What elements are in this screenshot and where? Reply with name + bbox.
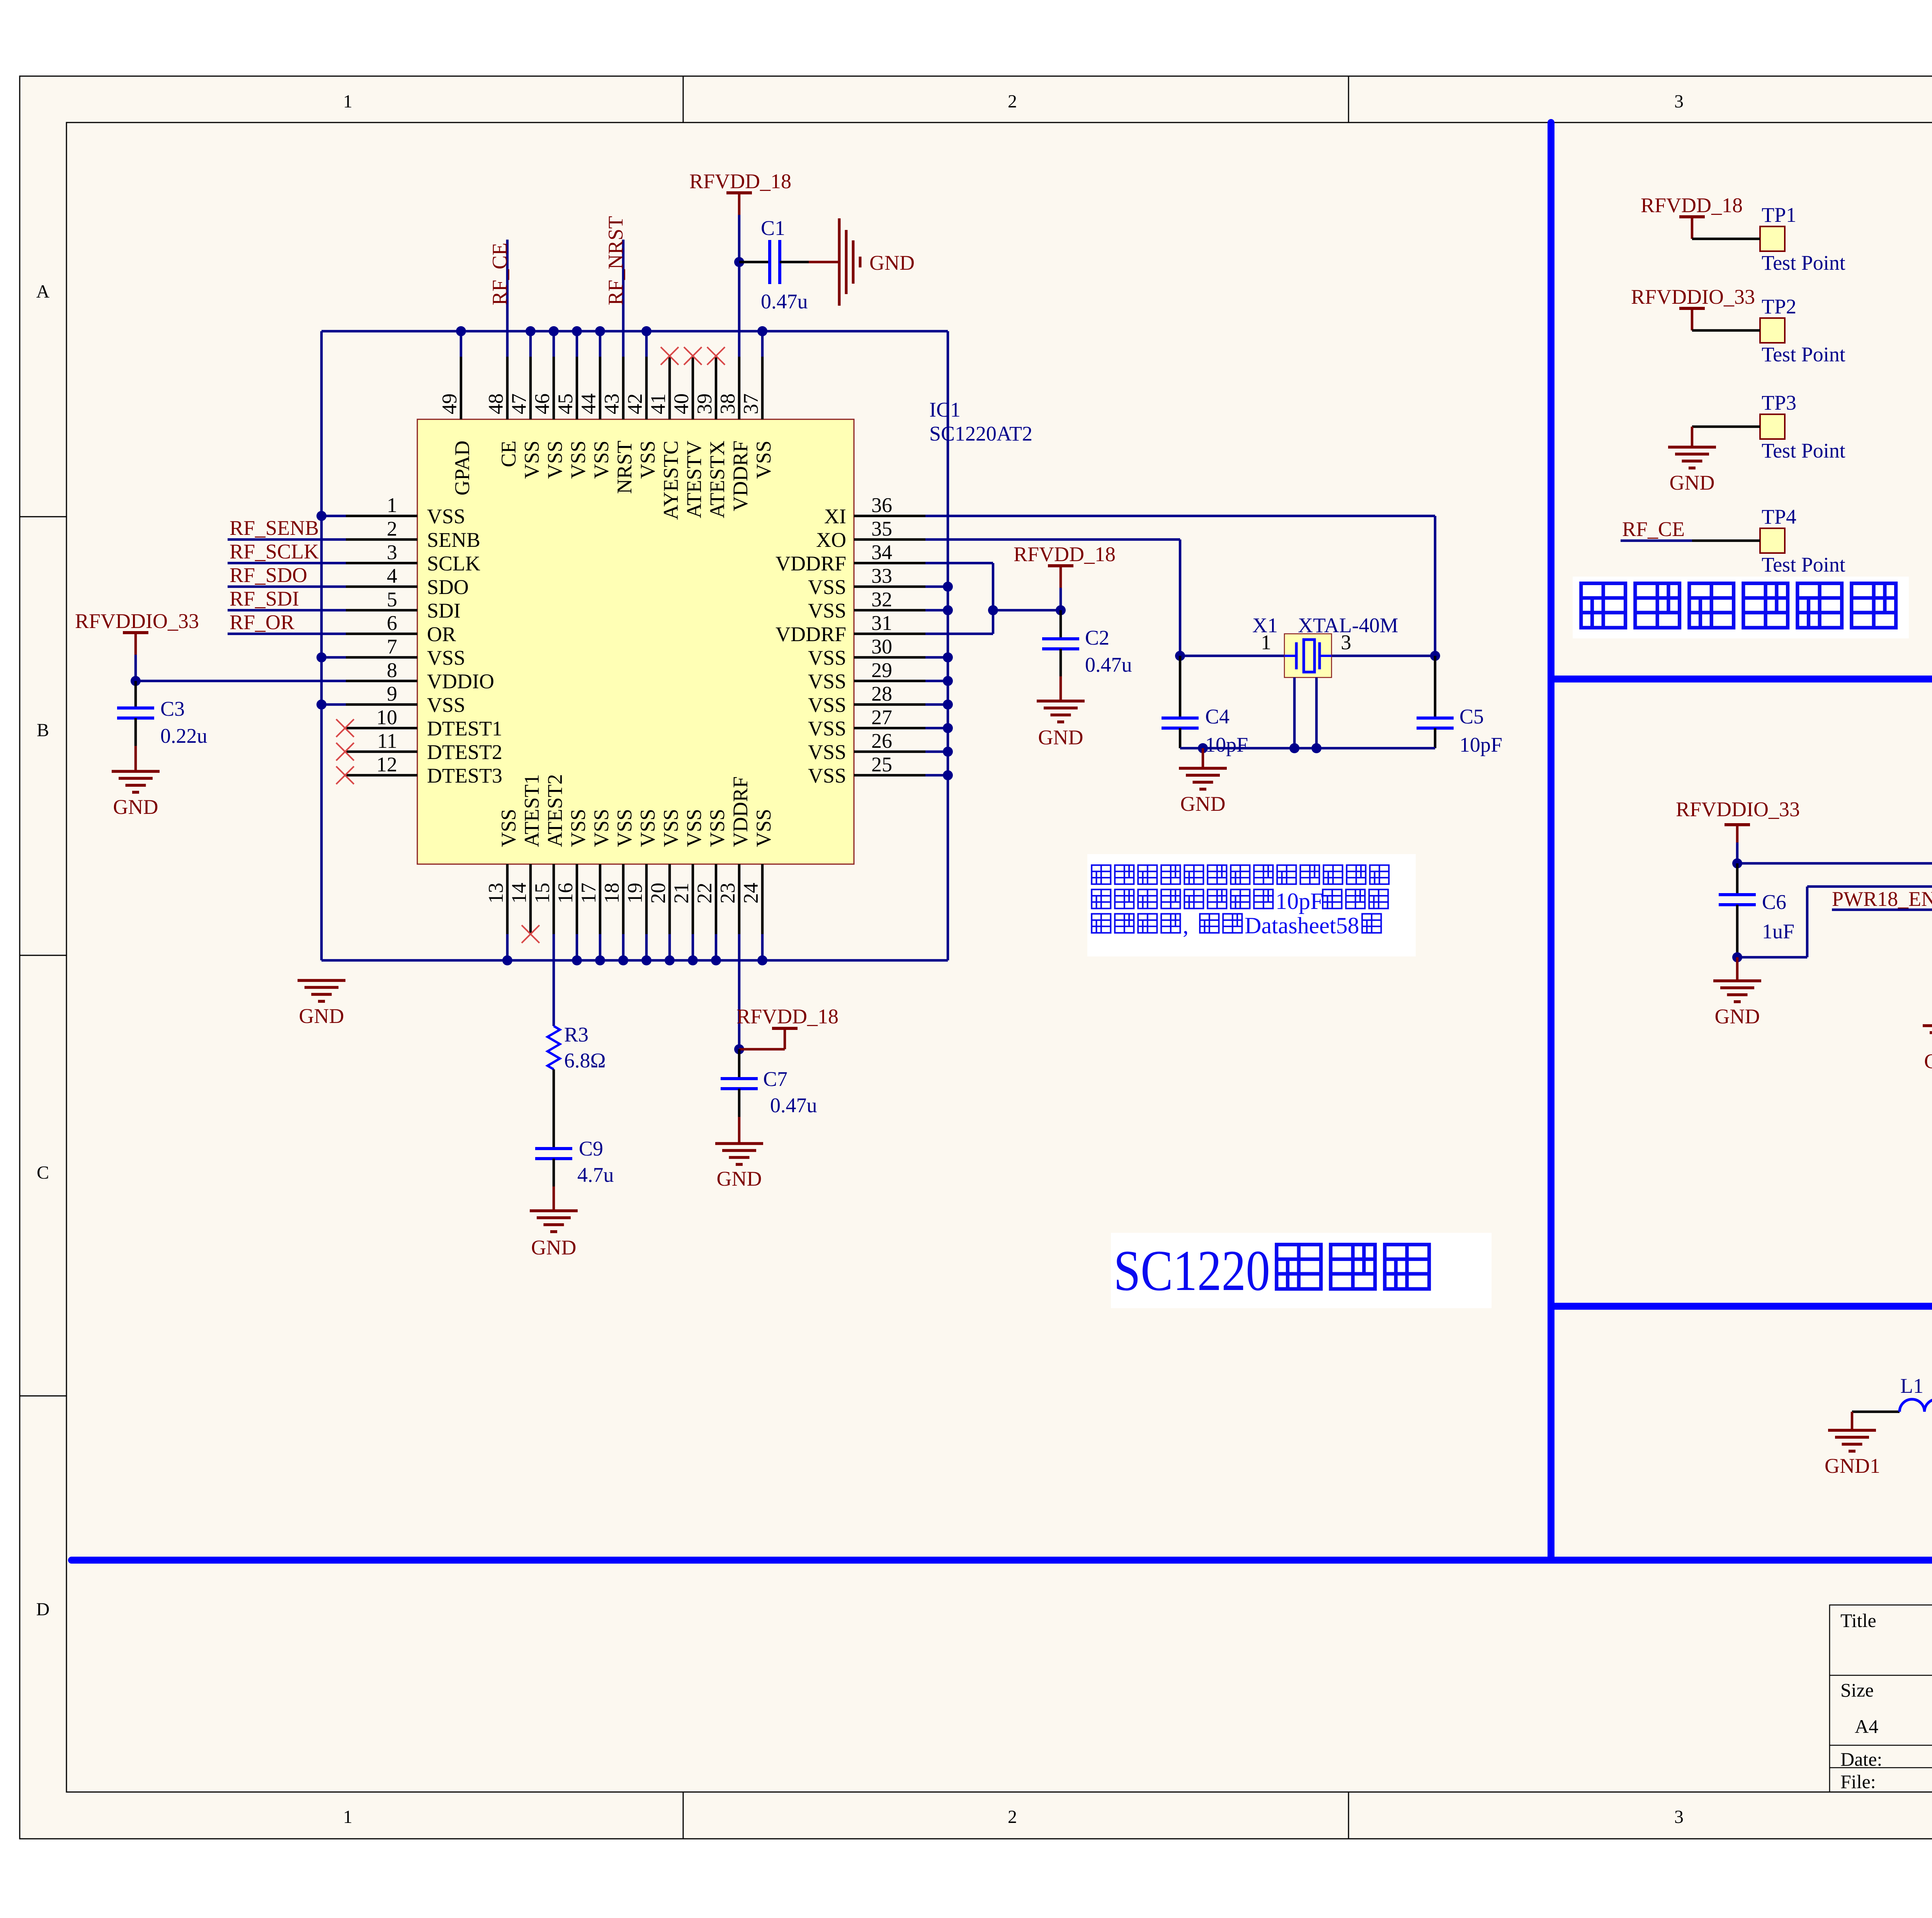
svg-text:Date:: Date: (1840, 1748, 1882, 1770)
svg-text:2: 2 (387, 517, 397, 540)
svg-text:GPAD: GPAD (451, 441, 474, 495)
svg-text:VSS: VSS (636, 441, 659, 479)
svg-text:Size: Size (1840, 1679, 1874, 1701)
svg-text:3: 3 (1674, 91, 1684, 112)
svg-text:6.8Ω: 6.8Ω (564, 1049, 606, 1072)
svg-text:Title: Title (1840, 1610, 1876, 1631)
svg-text:41: 41 (646, 393, 670, 414)
svg-text:VDDRF: VDDRF (776, 623, 846, 646)
svg-text:GND: GND (1924, 1050, 1932, 1073)
svg-text:RFVDD_18: RFVDD_18 (736, 1005, 838, 1028)
svg-text:GND: GND (1180, 792, 1226, 815)
svg-text:VSS: VSS (808, 740, 846, 764)
svg-text:27: 27 (871, 706, 892, 729)
svg-text:10pF: 10pF (1205, 733, 1248, 756)
svg-text:5: 5 (387, 588, 397, 611)
svg-text:RF_SCLK: RF_SCLK (230, 540, 319, 563)
svg-text:45: 45 (554, 393, 577, 414)
svg-text:C: C (37, 1162, 49, 1183)
svg-text:XO: XO (816, 528, 846, 551)
svg-text:,: , (1183, 913, 1189, 938)
svg-text:A4: A4 (1855, 1715, 1878, 1737)
svg-text:GND: GND (869, 251, 915, 274)
svg-text:R3: R3 (564, 1023, 588, 1046)
svg-text:RFVDD_18: RFVDD_18 (689, 170, 791, 193)
svg-text:6: 6 (387, 611, 397, 635)
svg-text:VSS: VSS (566, 441, 590, 479)
svg-text:VSS: VSS (808, 764, 846, 787)
svg-text:36: 36 (871, 494, 892, 517)
svg-text:1uF: 1uF (1762, 920, 1794, 943)
svg-text:38: 38 (716, 393, 739, 414)
svg-text:40: 40 (670, 393, 693, 414)
svg-text:46: 46 (531, 393, 554, 414)
svg-text:VSS: VSS (520, 441, 543, 479)
svg-text:ATEST2: ATEST2 (543, 774, 566, 847)
svg-text:23: 23 (716, 883, 739, 904)
svg-text:RF_SDO: RF_SDO (230, 563, 307, 587)
svg-text:1: 1 (1261, 631, 1271, 654)
svg-text:21: 21 (670, 883, 693, 904)
svg-text:VSS: VSS (566, 809, 590, 847)
svg-text:VSS: VSS (752, 441, 775, 479)
svg-text:VSS: VSS (497, 809, 520, 847)
svg-text:RF_CE: RF_CE (1622, 517, 1685, 541)
svg-text:RFVDD_18: RFVDD_18 (1014, 543, 1116, 566)
svg-text:PWR18_EN: PWR18_EN (1832, 887, 1932, 910)
svg-text:SDO: SDO (427, 575, 469, 599)
svg-text:VSS: VSS (682, 809, 706, 847)
svg-text:L1: L1 (1900, 1374, 1923, 1397)
svg-text:C4: C4 (1205, 705, 1230, 728)
svg-text:10pF: 10pF (1459, 733, 1502, 756)
svg-text:17: 17 (577, 883, 600, 904)
svg-text:49: 49 (438, 393, 461, 414)
svg-text:RF_SENB: RF_SENB (230, 516, 319, 539)
svg-text:GND: GND (531, 1236, 577, 1259)
svg-text:7: 7 (387, 635, 397, 658)
svg-text:VSS: VSS (590, 809, 613, 847)
svg-text:4.7u: 4.7u (577, 1163, 614, 1186)
svg-text:Test Point: Test Point (1762, 251, 1845, 274)
svg-text:0.47u: 0.47u (761, 290, 808, 313)
svg-text:VSS: VSS (636, 809, 659, 847)
svg-text:43: 43 (600, 393, 623, 414)
svg-text:28: 28 (871, 682, 892, 705)
svg-text:GND: GND (113, 795, 158, 819)
svg-text:34: 34 (871, 541, 892, 564)
svg-text:25: 25 (871, 753, 892, 776)
svg-text:3: 3 (387, 541, 397, 564)
svg-text:3: 3 (1674, 1807, 1684, 1827)
svg-text:39: 39 (693, 393, 716, 414)
svg-text:SDI: SDI (427, 599, 461, 622)
svg-text:Datasheet58: Datasheet58 (1245, 913, 1359, 938)
svg-text:Test Point: Test Point (1762, 343, 1845, 366)
svg-text:VSS: VSS (808, 646, 846, 669)
svg-text:IC1: IC1 (929, 398, 961, 421)
svg-text:2: 2 (1008, 91, 1017, 112)
svg-text:42: 42 (623, 393, 646, 414)
svg-text:RF_NRST: RF_NRST (604, 216, 627, 305)
svg-text:VSS: VSS (427, 505, 465, 528)
svg-text:VSS: VSS (706, 809, 729, 847)
svg-text:19: 19 (623, 883, 646, 904)
svg-text:Test Point: Test Point (1762, 553, 1845, 576)
svg-text:0.47u: 0.47u (770, 1094, 817, 1117)
svg-text:VSS: VSS (659, 809, 682, 847)
svg-text:47: 47 (507, 393, 531, 414)
svg-text:TP3: TP3 (1762, 391, 1796, 414)
svg-text:8: 8 (387, 659, 397, 682)
svg-text:TP1: TP1 (1762, 203, 1796, 226)
svg-text:VSS: VSS (543, 441, 566, 479)
svg-text:1: 1 (343, 91, 352, 112)
svg-text:35: 35 (871, 517, 892, 540)
svg-text:A: A (36, 281, 50, 302)
svg-text:RF_SDI: RF_SDI (230, 587, 299, 610)
svg-text:2: 2 (1008, 1807, 1017, 1827)
svg-text:CE: CE (497, 441, 520, 467)
svg-text:VDDIO: VDDIO (427, 670, 494, 693)
svg-text:31: 31 (871, 611, 892, 635)
svg-text:10: 10 (376, 706, 397, 729)
svg-text:0.22u: 0.22u (160, 724, 207, 747)
svg-text:VSS: VSS (808, 717, 846, 740)
svg-text:ATESTX: ATESTX (706, 441, 729, 518)
svg-text:1: 1 (343, 1807, 352, 1827)
svg-text:TP4: TP4 (1762, 505, 1796, 528)
svg-text:GND: GND (717, 1167, 762, 1190)
svg-text:4: 4 (387, 564, 397, 587)
svg-text:18: 18 (600, 883, 623, 904)
svg-text:14: 14 (507, 883, 531, 904)
svg-text:C6: C6 (1762, 890, 1786, 914)
svg-text:VDDRF: VDDRF (729, 441, 752, 511)
svg-text:RFVDD_18: RFVDD_18 (1641, 194, 1743, 217)
svg-text:VSS: VSS (808, 670, 846, 693)
svg-text:AYESTC: AYESTC (659, 441, 682, 520)
svg-text:SENB: SENB (427, 528, 480, 551)
svg-text:32: 32 (871, 588, 892, 611)
svg-text:C2: C2 (1085, 626, 1109, 649)
svg-text:GND: GND (1715, 1005, 1760, 1028)
svg-text:VSS: VSS (427, 693, 465, 716)
svg-text:C7: C7 (763, 1067, 787, 1091)
svg-text:VSS: VSS (590, 441, 613, 479)
svg-text:29: 29 (871, 659, 892, 682)
svg-text:VDDRF: VDDRF (776, 552, 846, 575)
svg-text:GND: GND (1670, 471, 1715, 494)
svg-text:VSS: VSS (613, 809, 636, 847)
svg-text:GND: GND (1038, 726, 1083, 749)
svg-text:VSS: VSS (808, 693, 846, 716)
svg-text:DTEST3: DTEST3 (427, 764, 502, 787)
svg-text:B: B (37, 720, 49, 740)
svg-text:VDDRF: VDDRF (729, 776, 752, 847)
svg-text:9: 9 (387, 682, 397, 705)
svg-text:C3: C3 (160, 697, 185, 720)
svg-text:48: 48 (484, 393, 507, 414)
svg-text:SCLK: SCLK (427, 552, 480, 575)
svg-text:OR: OR (427, 623, 456, 646)
svg-text:0.47u: 0.47u (1085, 653, 1132, 676)
svg-text:1: 1 (387, 494, 397, 517)
svg-text:GND1: GND1 (1825, 1454, 1880, 1477)
svg-text:RF_CE: RF_CE (488, 243, 511, 305)
svg-text:SC1220AT2: SC1220AT2 (929, 422, 1032, 445)
svg-text:44: 44 (577, 393, 600, 414)
svg-text:VSS: VSS (808, 575, 846, 599)
svg-text:RFVDDIO_33: RFVDDIO_33 (1631, 285, 1755, 308)
svg-text:RFVDDIO_33: RFVDDIO_33 (1676, 798, 1800, 821)
svg-text:DTEST2: DTEST2 (427, 740, 502, 764)
svg-text:3: 3 (1341, 631, 1351, 654)
svg-text:22: 22 (693, 883, 716, 904)
svg-text:RF_OR: RF_OR (230, 611, 294, 634)
svg-text:VSS: VSS (752, 809, 775, 847)
svg-text:GND: GND (299, 1004, 344, 1028)
svg-text:10pF: 10pF (1276, 888, 1323, 914)
svg-text:C1: C1 (761, 216, 785, 240)
svg-text:VSS: VSS (427, 646, 465, 669)
svg-text:13: 13 (484, 883, 507, 904)
svg-text:20: 20 (646, 883, 670, 904)
svg-text:TP2: TP2 (1762, 295, 1796, 318)
svg-text:C9: C9 (579, 1137, 603, 1160)
svg-text:File:: File: (1840, 1771, 1876, 1792)
svg-text:D: D (36, 1599, 50, 1620)
svg-text:11: 11 (377, 729, 397, 752)
svg-text:ATEST1: ATEST1 (520, 774, 543, 847)
svg-text:XI: XI (824, 505, 846, 528)
svg-text:24: 24 (739, 883, 762, 904)
svg-text:12: 12 (376, 753, 397, 776)
svg-text:ATESTV: ATESTV (682, 441, 706, 518)
svg-text:RFVDDIO_33: RFVDDIO_33 (75, 609, 199, 633)
svg-text:16: 16 (554, 883, 577, 904)
svg-text:30: 30 (871, 635, 892, 658)
svg-text:37: 37 (739, 393, 762, 414)
svg-text:33: 33 (871, 564, 892, 587)
svg-text:NRST: NRST (613, 441, 636, 494)
svg-text:DTEST1: DTEST1 (427, 717, 502, 740)
svg-text:VSS: VSS (808, 599, 846, 622)
svg-text:Test Point: Test Point (1762, 439, 1845, 462)
svg-text:26: 26 (871, 729, 892, 752)
svg-text:15: 15 (531, 883, 554, 904)
svg-text:C5: C5 (1459, 705, 1484, 728)
svg-text:SC1220: SC1220 (1114, 1239, 1270, 1303)
